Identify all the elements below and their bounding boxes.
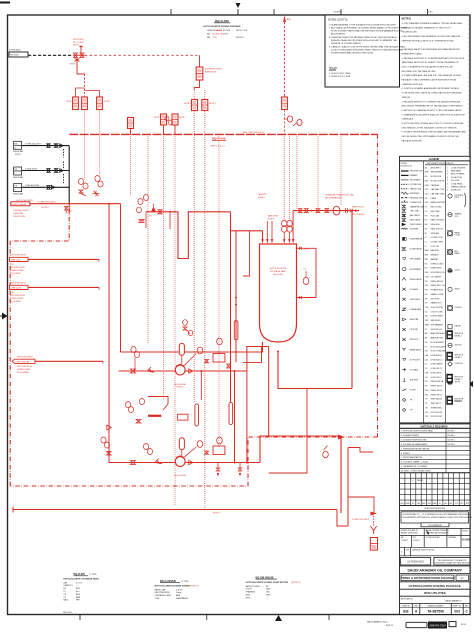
feed drain valve: [65, 207, 73, 214]
svg-text:THERMOWELL: THERMOWELL: [431, 407, 443, 409]
svg-text:0-10 l/h: 0-10 l/h: [176, 589, 182, 591]
gate valve: [54, 169, 57, 173]
svg-text:LSL: LSL: [425, 377, 428, 379]
svg-text:CHECK VALVE: CHECK VALVE: [410, 223, 423, 226]
svg-text:BQ-D-005: BQ-D-005: [273, 274, 283, 276]
svg-text:LINE CLASS: LINE CLASS: [410, 298, 421, 301]
utility header drop: [68, 146, 70, 204]
svg-text:ENCL: ENCL: [246, 595, 251, 597]
svg-text:HIGH HIGH: HIGH HIGH: [431, 224, 441, 226]
inline filter: [178, 414, 188, 420]
svg-text:NOTE 1: NOTE 1: [179, 117, 186, 119]
svg-text:SLOPE: SLOPE: [410, 390, 417, 392]
svg-text:PRESS SFTY VLV: PRESS SFTY VLV: [431, 285, 446, 287]
svg-text:INGRESS OF STORED WATER.: INGRESS OF STORED WATER.: [331, 42, 361, 45]
svg-text:4. PULSATION DAMPENERS: 4. PULSATION DAMPENERS: [401, 443, 428, 446]
injection line drop: [340, 436, 342, 513]
minflow loop: [243, 347, 262, 363]
svg-text:PRESS RELIEF: PRESS RELIEF: [431, 281, 443, 283]
train A discharge valve: [227, 364, 231, 368]
train B check valve: [189, 460, 193, 464]
svg-text:MINIMUM: MINIMUM: [431, 255, 439, 257]
drain funnel box: [370, 538, 377, 551]
svg-text:NOTE 8: NOTE 8: [236, 37, 244, 39]
svg-text:ARRESTOR: ARRESTOR: [205, 70, 217, 73]
svg-text:HYPOCHLORITE: HYPOCHLORITE: [10, 283, 26, 285]
train A strainer: [147, 367, 154, 373]
svg-text:TW: TW: [410, 410, 413, 412]
relief valve A: [184, 100, 198, 111]
svg-text:PROCEEDING BUT TION AND ITS: PROCEEDING BUT TION AND ITS: [438, 559, 467, 562]
svg-text:PACKAGE SUPPLIER.: PACKAGE SUPPLIER.: [402, 139, 423, 142]
svg-text:3. DOSING PUMP MOTORS: 3. DOSING PUMP MOTORS: [401, 439, 427, 441]
svg-text:HYPOCHLORITE: HYPOCHLORITE: [17, 366, 33, 368]
svg-text:NOTE 5: NOTE 5: [448, 444, 456, 446]
svg-text:LEVEL SW LO: LEVEL SW LO: [431, 377, 443, 379]
boundary left drop: [68, 204, 70, 214]
svg-text:TIE-IN 55136: TIE-IN 55136: [13, 216, 26, 218]
svg-text:9. CALIBRATION COLUMNS: 9. CALIBRATION COLUMNS: [401, 465, 428, 468]
svg-text:HYPOCHLORITE: HYPOCHLORITE: [10, 255, 26, 257]
svg-text:7. DRAWERS/FILLING AFTER SHALL: 7. DRAWERS/FILLING AFTER SHALL BE USED F…: [402, 113, 466, 116]
svg-text:PRESSURE GA: PRESSURE GA: [431, 380, 444, 383]
instrument cluster A: [78, 179, 88, 197]
svg-text:CHEMICAL: CHEMICAL: [431, 184, 440, 187]
svg-text:LEVEL IND TX: LEVEL IND TX: [431, 368, 443, 370]
svg-text:REQUIRED AUTHORIZATION: REQUIRED AUTHORIZATION: [426, 532, 450, 535]
svg-text:LEVEL ALM LO: LEVEL ALM LO: [431, 358, 444, 361]
svg-text:DETAIL 1: DETAIL 1: [455, 334, 462, 337]
svg-text:NOTE 2: NOTE 2: [42, 207, 50, 209]
svg-text:OFFICE: OFFICE: [462, 531, 469, 533]
svg-text:PROFESSIONAL CE___ IS CONFIRME: PROFESSIONAL CE___ IS CONFIRMED FOR ALL …: [403, 513, 472, 516]
svg-text:CHM 55138: CHM 55138: [11, 288, 23, 290]
svg-text:REDUCER: REDUCER: [410, 319, 419, 321]
svg-text:EXTENDED VENT: EXTENDED VENT: [205, 69, 223, 71]
svg-text:1: 1: [447, 167, 448, 169]
pump train A line: [119, 370, 247, 372]
signal line 148: [147, 134, 149, 344]
svg-text:LTR: LTR: [224, 34, 228, 36]
svg-text:DET: DET: [460, 503, 463, 505]
svg-text:LL: LL: [425, 246, 427, 248]
spare connector 1: [10, 255, 100, 275]
package boundary bottom step: [10, 437, 377, 486]
svg-text:DCS ACCESS: DCS ACCESS: [451, 176, 463, 179]
svg-text:MAIN PANEL: MAIN PANEL: [451, 170, 461, 173]
package title header: [203, 19, 248, 39]
svg-text:VENDOR.: VENDOR.: [402, 97, 412, 99]
svg-text:LEVEL ALM HI: LEVEL ALM HI: [431, 354, 443, 357]
train A relief riser: [184, 338, 225, 365]
hypochlorite feed connector: [11, 200, 34, 218]
boundary flow arrow: [338, 435, 345, 440]
svg-text:BQ-G-005/B: BQ-G-005/B: [10, 301, 21, 303]
svg-text:TANK TRUCK: TANK TRUCK: [352, 206, 365, 209]
svg-text:(NOTE 5): (NOTE 5): [189, 585, 199, 587]
svg-text:REF DWG: REF DWG: [63, 612, 72, 614]
svg-text:TEMP IND TX: TEMP IND TX: [431, 403, 443, 405]
svg-text:NOTES (CONT'D): NOTES (CONT'D): [328, 19, 348, 22]
unload valve 2: [82, 97, 88, 110]
svg-text:BQP 05: BQP 05: [386, 625, 394, 627]
svg-text:PROCESS LINE: PROCESS LINE: [410, 171, 424, 173]
svg-text:FUEL GAS: FUEL GAS: [431, 214, 440, 217]
train A branch down: [200, 371, 202, 400]
svg-text:HP-04: HP-04: [304, 249, 309, 251]
svg-text:INSTR AIR: INSTR AIR: [410, 228, 419, 231]
loop seal: [178, 212, 231, 259]
drain header: [13, 507, 337, 515]
svg-text:HYPOCHLORITE: HYPOCHLORITE: [17, 356, 33, 358]
skid label: [211, 136, 227, 147]
dosing pump A: [175, 364, 186, 388]
svg-text:DRAIN: DRAIN: [431, 197, 437, 200]
svg-text:BQ-G-005/B: BQ-G-005/B: [10, 273, 21, 275]
pulsation dampener B: [179, 438, 184, 456]
black dashed supply line: [28, 54, 73, 56]
svg-text:4. CONTROL SCHEME, ALARMS AND: 4. CONTROL SCHEME, ALARMS AND INSTRUMENT…: [402, 87, 460, 90]
level bridle drop: [230, 231, 232, 402]
atmospheric vent riser: [283, 16, 291, 98]
svg-text:DOSING PUMP: DOSING PUMP: [10, 270, 24, 272]
svg-text:TRACED LINE: TRACED LINE: [410, 188, 422, 191]
train B strainer: [155, 459, 162, 465]
skid edge valve pair 1: [154, 114, 167, 134]
svg-text:NOTE 5 & 8: NOTE 5 & 8: [236, 30, 248, 32]
unload valve 1: [66, 97, 78, 110]
signal line 205: [204, 90, 206, 99]
svg-text:5. PRESSURE RELIEF VALVES: 5. PRESSURE RELIEF VALVES: [401, 447, 430, 450]
recirc riser: [247, 347, 269, 463]
level displacer: [234, 321, 238, 341]
svg-text:NTS: NTS: [429, 12, 434, 14]
svg-text:TEE CONN: TEE CONN: [410, 211, 420, 213]
svg-text:10. SKID - STRUCTURAL STEEL: 10. SKID - STRUCTURAL STEEL: [401, 470, 432, 473]
svg-text:REQUIRED FOR THE TANK FILLING.: REQUIRED FOR THE TANK FILLING.: [402, 70, 437, 73]
svg-text:FUT: FUT: [10, 292, 15, 294]
notes continuation box: [325, 15, 407, 87]
svg-text:HP: HP: [266, 586, 269, 588]
svg-text:5 barg: 5 barg: [176, 591, 181, 594]
svg-text:RPM: RPM: [246, 597, 251, 599]
svg-text:ANALYZER ELEM: ANALYZER ELEM: [431, 332, 446, 335]
LIT signal stubs: [283, 134, 285, 220]
utility connector 2: [13, 167, 24, 179]
gate valve: [47, 186, 50, 190]
svg-text:NOTE 7: NOTE 7: [177, 387, 184, 389]
svg-text:WTR HAMMER: WTR HAMMER: [431, 324, 444, 327]
svg-text:1. PACKAGE SAFETY SHOWERS AND: 1. PACKAGE SAFETY SHOWERS AND EYE WASH F…: [402, 48, 461, 51]
svg-text:DP: DP: [63, 588, 66, 590]
svg-text:NOTE 2: NOTE 2: [258, 197, 265, 199]
svg-text:003: 003: [454, 610, 460, 614]
svg-text:REQUIREMENTS WITH SAR FULL UND: REQUIREMENTS WITH SAR FULL UNDER DRAWING…: [403, 516, 473, 519]
svg-text:POTABLE WTR: POTABLE WTR: [431, 289, 444, 292]
vent valve: [282, 97, 288, 134]
svg-text:6. METHOD OF CHEMICAL SUPPLY T: 6. METHOD OF CHEMICAL SUPPLY TO BE CONFI…: [402, 109, 463, 112]
signal line 85: [84, 110, 86, 179]
gate valve: [47, 169, 50, 173]
equipment data block tank: [63, 573, 99, 602]
svg-text:POSITION SW: POSITION SW: [431, 416, 443, 418]
package boundary right edge: [377, 134, 379, 437]
svg-text:DWG-BLANK: DWG-BLANK: [13, 176, 24, 179]
svg-text:DRAWING NUMBER: DRAWING NUMBER: [428, 605, 445, 608]
svg-text:TEMP GAUGE: TEMP GAUGE: [431, 398, 443, 401]
svg-text:PSL: PSL: [425, 394, 428, 396]
svg-text:--: --: [266, 597, 268, 599]
svg-text:NOTE 5: NOTE 5: [448, 431, 456, 433]
svg-text:6: 6: [447, 183, 448, 185]
overflow leg: [235, 231, 237, 362]
stamp boxes: [406, 622, 467, 629]
svg-text:MATL: MATL: [63, 599, 68, 602]
signal line 175: [174, 134, 176, 505]
signal line 219: [218, 134, 220, 448]
svg-text:INSTRUMENT IDENTIFICATION: INSTRUMENT IDENTIFICATION: [427, 162, 454, 165]
svg-text:NORM OPEN: NORM OPEN: [431, 268, 442, 270]
svg-text:1 NORTH: 1 NORTH: [333, 12, 342, 14]
svg-text:INTERLOCK: INTERLOCK: [451, 190, 462, 192]
svg-text:8: 8: [447, 190, 448, 192]
svg-text:FILL CONN: FILL CONN: [73, 42, 84, 44]
svg-text:CONTINUED ON AND JEY P&ID JER-: CONTINUED ON AND JEY P&ID JER-5700: [434, 562, 469, 565]
svg-text:SA: SA: [207, 36, 210, 39]
svg-text:BALL VALVE: BALL VALVE: [410, 214, 421, 217]
svg-text:NO NORM FLOW: NO NORM FLOW: [431, 272, 445, 274]
svg-text:FLOW TOTALIZER: FLOW TOTALIZER: [431, 350, 446, 353]
svg-text:SIS FN: SIS FN: [455, 382, 461, 384]
svg-text:SAR-PG-7514: SAR-PG-7514: [429, 623, 446, 627]
level transmitters: [282, 220, 293, 239]
svg-text:HYPOCHLORITE DOSING PACKAGE: HYPOCHLORITE DOSING PACKAGE: [409, 584, 461, 588]
spec break 1: [63, 149, 65, 158]
train A check valve: [189, 369, 193, 373]
svg-text:HYPOCHLORITE STORAGE TANK: HYPOCHLORITE STORAGE TANK: [63, 577, 99, 580]
svg-text:NOTE 1: NOTE 1: [66, 101, 73, 103]
svg-text:1: 1: [14, 173, 15, 175]
svg-text:BEHALF (SUPPLIER): BEHALF (SUPPLIER): [401, 532, 418, 535]
svg-text:FAIL CLOSED: FAIL CLOSED: [431, 206, 443, 209]
svg-text:CAPACITY: CAPACITY: [63, 584, 73, 587]
equipment data block pumps: [155, 580, 199, 600]
svg-text:NORM CLOSED: NORM CLOSED: [431, 263, 445, 265]
revision grid: [400, 473, 471, 506]
svg-text:DIFF PRESSURE: DIFF PRESSURE: [155, 592, 171, 594]
signal line 318: [317, 134, 319, 209]
svg-text:COORD STUDIES: COORD STUDIES: [426, 537, 441, 539]
svg-text:TO BE DEVELOPED LATER IN CONSU: TO BE DEVELOPED LATER IN CONSULTATION WI…: [402, 92, 463, 95]
svg-text:BACK OF PANEL: BACK OF PANEL: [451, 173, 465, 176]
calibration column B: [229, 402, 233, 424]
utility line 2: [22, 168, 70, 170]
svg-text:CONNECTION: CONNECTION: [410, 202, 422, 204]
svg-text:PLANT NO: PLANT NO: [402, 605, 411, 608]
svg-text:R-5248: R-5248: [462, 539, 470, 542]
tank truck nozzle label: [267, 215, 279, 240]
svg-text:INSTRUMENT: INSTRUMENT: [410, 269, 422, 271]
svg-text:SET POINT: SET POINT: [431, 298, 441, 300]
dosing pump B: [175, 456, 186, 477]
svg-text:HYPOCHLORITE: HYPOCHLORITE: [10, 295, 26, 297]
svg-text:CHLORINE AT 1.0 PPM. PACKAGE C: CHLORINE AT 1.0 PPM. PACKAGE CONTROL BY …: [402, 126, 458, 129]
svg-text:HYPOCHLORITE DOSING PACKAGE: HYPOCHLORITE DOSING PACKAGE: [203, 25, 241, 28]
svg-text:SKID LIMIT (NOTE 3): SKID LIMIT (NOTE 3): [243, 132, 265, 134]
svg-text:OPERATING TEMP: OPERATING TEMP: [155, 594, 172, 597]
svg-text:ANALYZER IND: ANALYZER IND: [431, 337, 444, 340]
svg-text:PRESS SW HI: PRESS SW HI: [431, 390, 443, 392]
package boundary left edge: [10, 204, 69, 486]
PVRV split: [194, 80, 199, 90]
svg-text:PRIMARY: PRIMARY: [410, 174, 419, 177]
svg-text:10-T0Z00-0032: 10-T0Z00-0032: [407, 561, 424, 564]
train A suction valve: [130, 369, 135, 373]
svg-text:5: 5: [447, 180, 448, 182]
svg-text:SCOPE: SCOPE: [223, 30, 231, 32]
svg-text:05: 05: [14, 147, 16, 149]
injection point arrow: [371, 512, 378, 516]
svg-text:CHM 55139 A4: CHM 55139 A4: [16, 361, 30, 364]
svg-text:CHEMICAL INJECTION P&ID: CHEMICAL INJECTION P&ID: [412, 549, 435, 552]
svg-text:GATE VALVE: GATE VALVE: [410, 219, 421, 222]
svg-text:BULK CONTAINERS OR UNLOADING P: BULK CONTAINERS OR UNLOADING PUMPS WILL …: [402, 66, 454, 69]
svg-text:CAR SEAL OPEN: CAR SEAL OPEN: [431, 193, 446, 196]
svg-text:2. DOSING PUMPS: 2. DOSING PUMPS: [401, 435, 419, 437]
svg-text:NPW 1 2 3 4 5: NPW 1 2 3 4 5: [211, 146, 226, 148]
svg-text:DIAPHRAGM: DIAPHRAGM: [176, 597, 188, 600]
svg-text:TEFC: TEFC: [266, 595, 272, 597]
check valve: [51, 186, 54, 190]
svg-text:FUTURE LINE: FUTURE LINE: [410, 184, 422, 186]
PVRV riser: [199, 55, 201, 67]
svg-text:PW: PW: [14, 169, 17, 171]
svg-text:ATM: ATM: [76, 593, 80, 596]
svg-text:VAR SPEED: VAR SPEED: [431, 319, 441, 322]
svg-text:AMB: AMB: [76, 596, 81, 599]
svg-text:8. CHEMICAL INJECTION PACKAGE: 8. CHEMICAL INJECTION PACKAGE VENDOR SET…: [329, 36, 397, 39]
legend instrument bubbles: [447, 166, 467, 404]
svg-text:PANEL: PANEL: [455, 252, 461, 255]
svg-text:2-PR-660-100P4: 2-PR-660-100P4: [13, 210, 29, 212]
svg-text:CHM: CHM: [425, 185, 429, 187]
svg-text:9. CAPACITY (DAILY) FLOW OF FI: 9. CAPACITY (DAILY) FLOW OF FITTINGS CEN…: [329, 46, 406, 49]
svg-text:SPEC BREAK: SPEC BREAK: [410, 258, 422, 261]
svg-text:LOCKED OPEN: LOCKED OPEN: [431, 242, 444, 244]
svg-text:PACKAGE LIMIT: PACKAGE LIMIT: [410, 196, 424, 199]
svg-text:PIPING: PIPING: [401, 163, 408, 165]
svg-text:(COM.) TO REQUIRED SPECIFIED I: (COM.) TO REQUIRED SPECIFIED ITEMS. VEND…: [331, 49, 404, 52]
svg-text:NOTE: NOTE: [73, 45, 79, 47]
svg-text:AND DESIGN TEMPERATURE OF THE: AND DESIGN TEMPERATURE OF THE PACKAGE CO…: [402, 105, 464, 108]
svg-text:NNF: NNF: [425, 272, 429, 274]
svg-text:TANK SHALL BE FILLED BY GRAVIT: TANK SHALL BE FILLED BY GRAVITY FROM DRU…: [402, 61, 460, 64]
svg-text:OT: OT: [63, 597, 66, 599]
svg-text:3/60: 3/60: [266, 592, 270, 594]
svg-text:NOTE 4: NOTE 4: [268, 218, 275, 220]
svg-text:ATM VENT: ATM VENT: [410, 379, 420, 382]
svg-text:DOSING PUMP: DOSING PUMP: [10, 298, 24, 300]
svg-text:HYPOCHLORITE DOSING PUMP MOTOR: HYPOCHLORITE DOSING PUMP MOTOR: [246, 582, 289, 584]
train A gauges: [131, 347, 140, 372]
svg-text:1. HYPOCHLORITE DOSING TANK: 1. HYPOCHLORITE DOSING TANK: [401, 430, 434, 433]
svg-text:BQ-G-005: BQ-G-005: [215, 19, 229, 23]
svg-text:CAP: CAP: [63, 581, 68, 584]
svg-text:APPLICATION: APPLICATION: [401, 597, 413, 600]
svg-text:FLANGE PAIR: FLANGE PAIR: [410, 308, 422, 311]
svg-text:VORTEX BRKR: VORTEX BRKR: [431, 316, 444, 318]
svg-text:2. PUMP HOLD 1 SIZE.: 2. PUMP HOLD 1 SIZE.: [329, 76, 351, 78]
spec break 2: [63, 162, 65, 170]
discharge header right: [278, 351, 352, 389]
signal line 163.5: [163, 134, 165, 400]
discharge collect A: [234, 371, 236, 463]
svg-text:PIPING & INSTRUMENTATION DIAGR: PIPING & INSTRUMENTATION DIAGRAM: [401, 576, 455, 580]
truck fill station: [70, 39, 85, 66]
svg-text:ATM: ATM: [287, 18, 291, 21]
svg-text:0: 0: [412, 480, 413, 482]
svg-text:MAXIMUM: MAXIMUM: [431, 249, 440, 252]
svg-text:2: 2: [14, 190, 15, 192]
train B drains: [216, 463, 242, 477]
svg-text:DOSING RATES AND DESIGN CONDIT: DOSING RATES AND DESIGN CONDITIONS.: [331, 52, 374, 55]
svg-text:BQ-G-005B: BQ-G-005B: [175, 475, 186, 477]
svg-text:TIE-JER-BO-385.: TIE-JER-BO-385.: [402, 32, 418, 34]
svg-text:HAND CONTROL: HAND CONTROL: [431, 219, 445, 222]
svg-text:NOTE 1: NOTE 1: [184, 103, 191, 105]
utility connector 3: [13, 184, 24, 196]
svg-text:DETAIL 4: DETAIL 4: [455, 400, 462, 403]
svg-text:FO: FO: [70, 211, 73, 213]
svg-text:2-PWS-4660: 2-PWS-4660: [9, 50, 21, 52]
drain pocket: [337, 448, 348, 527]
svg-text:GLOBE VALVE: GLOBE VALVE: [410, 248, 423, 251]
fill drop line: [292, 211, 294, 239]
svg-text:CNTRLR: CNTRLR: [455, 307, 463, 309]
svg-text:TIGHT SHTOFF: TIGHT SHTOFF: [431, 307, 443, 309]
skid edge valve pair 2: [165, 114, 186, 134]
svg-text:RATED POWER: RATED POWER: [246, 585, 261, 588]
svg-text:SECONDARY: SECONDARY: [410, 179, 422, 182]
transfer line: [146, 204, 178, 230]
svg-text:FO VALVE: FO VALVE: [410, 288, 419, 291]
svg-text:BQ-G-005A: BQ-G-005A: [175, 383, 186, 386]
svg-text:RATED CAP: RATED CAP: [155, 588, 166, 591]
svg-text:HYPOCHLORITE: HYPOCHLORITE: [10, 267, 26, 269]
svg-text:JP30 UTILITIES: JP30 UTILITIES: [424, 591, 446, 595]
svg-text:4.5 m3: 4.5 m3: [76, 582, 82, 584]
off-page connector potable water: [9, 50, 28, 58]
svg-text:SHARED DISPLAY: SHARED DISPLAY: [451, 186, 467, 189]
svg-text:DWG-BLANK: DWG-BLANK: [13, 193, 24, 196]
suction risers: [108, 204, 110, 455]
svg-text:LOGIC: LOGIC: [455, 270, 461, 272]
svg-text:WILL BE DEVELOPED UPON BASED O: WILL BE DEVELOPED UPON BASED ON INPUTS F…: [402, 135, 460, 138]
svg-text:SAMPLE SYS: SAMPLE SYS: [431, 302, 443, 305]
svg-text:09/14: 09/14: [461, 624, 467, 626]
svg-text:SC DRAIN: SC DRAIN: [410, 368, 419, 371]
tank outlet: [121, 342, 263, 352]
svg-text:NO POCKET: NO POCKET: [410, 359, 421, 361]
svg-text:BUILDING SHALL BE PROVIDED WIT: BUILDING SHALL BE PROVIDED WITH A CHILLE…: [331, 39, 397, 42]
vent instruments: [285, 116, 303, 126]
svg-text:MATERIALS REQUIRED: MATERIALS REQUIRED: [420, 425, 447, 428]
svg-text:RELIEF VALVE: RELIEF VALVE: [410, 278, 423, 281]
svg-text:7: 7: [447, 187, 448, 189]
takeoff step: [348, 448, 373, 453]
svg-text:CHEMICAL SUPPLIER.: CHEMICAL SUPPLIER.: [402, 83, 424, 86]
svg-text:PG: PG: [149, 216, 152, 218]
